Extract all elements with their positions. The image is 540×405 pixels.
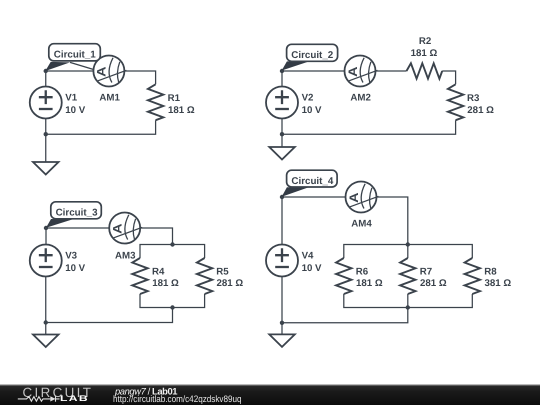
svg-text:R4: R4 [152, 266, 165, 277]
svg-text:A: A [111, 223, 125, 234]
svg-text:10 V: 10 V [65, 263, 85, 274]
svg-text:V4: V4 [302, 251, 314, 262]
svg-text:R3: R3 [467, 93, 480, 104]
svg-text:10 V: 10 V [302, 105, 322, 116]
svg-text:R1: R1 [168, 93, 181, 104]
svg-text:181 Ω: 181 Ω [411, 48, 438, 59]
svg-text:281 Ω: 281 Ω [420, 278, 447, 289]
svg-text:A: A [95, 66, 109, 77]
svg-text:281 Ω: 281 Ω [217, 278, 244, 289]
svg-text:381 Ω: 381 Ω [485, 278, 512, 289]
svg-text:Circuit_2: Circuit_2 [291, 50, 333, 61]
svg-text:AM2: AM2 [350, 92, 370, 103]
svg-text:AM4: AM4 [351, 219, 372, 230]
svg-text:V3: V3 [65, 251, 77, 262]
svg-text:A: A [346, 66, 360, 77]
svg-text:Circuit_3: Circuit_3 [56, 208, 98, 219]
svg-text:Circuit_4: Circuit_4 [291, 176, 333, 187]
svg-text:R6: R6 [356, 266, 369, 277]
svg-text:Circuit_1: Circuit_1 [54, 50, 96, 61]
svg-text:R7: R7 [420, 266, 432, 277]
svg-text:10 V: 10 V [302, 263, 322, 274]
svg-text:A: A [347, 192, 361, 203]
svg-text:R8: R8 [484, 266, 497, 277]
svg-text:http://circuitlab.com/c42qzdsk: http://circuitlab.com/c42qzdskv89uq [113, 393, 242, 404]
svg-text:10 V: 10 V [65, 105, 85, 116]
svg-text:V1: V1 [65, 93, 77, 104]
svg-text:181 Ω: 181 Ω [356, 278, 383, 289]
svg-text:181 Ω: 181 Ω [168, 105, 195, 116]
svg-text:AM1: AM1 [99, 92, 120, 103]
svg-text:AM3: AM3 [115, 251, 136, 262]
svg-text:LAB: LAB [60, 394, 89, 403]
svg-text:R2: R2 [419, 36, 431, 47]
svg-text:V2: V2 [302, 93, 314, 104]
svg-text:181 Ω: 181 Ω [152, 278, 179, 289]
svg-text:R5: R5 [216, 266, 229, 277]
svg-text:281 Ω: 281 Ω [467, 105, 494, 116]
